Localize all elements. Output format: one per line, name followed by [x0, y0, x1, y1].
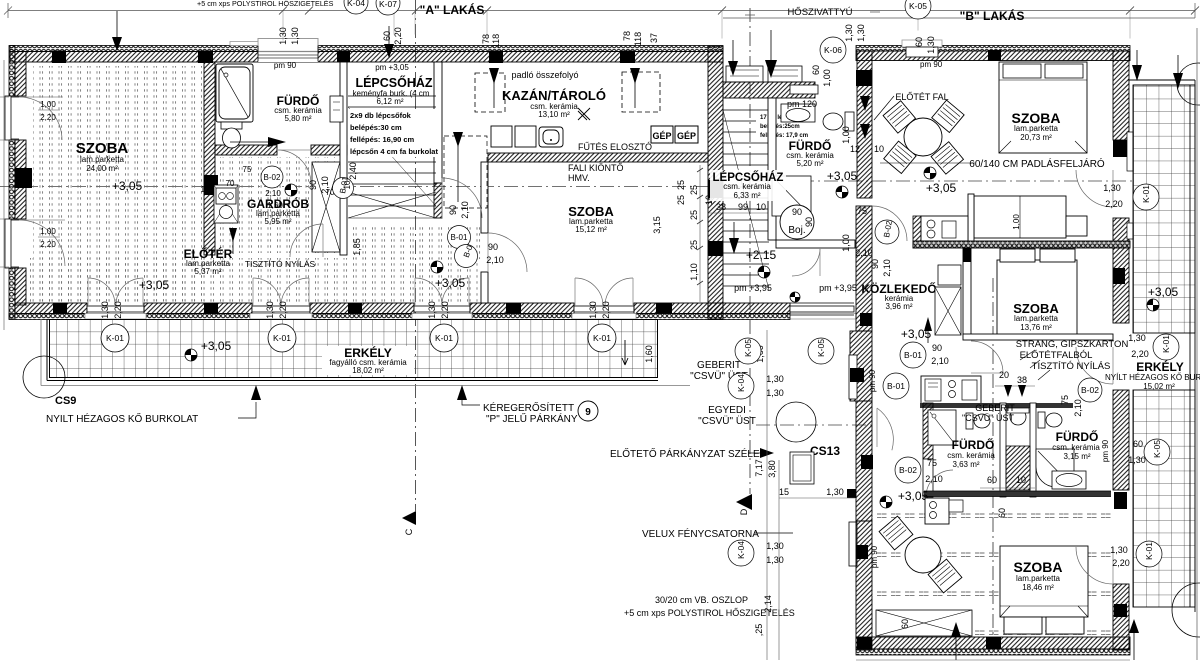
svg-text:24,00 m²: 24,00 m² [86, 164, 118, 173]
svg-text:3,80: 3,80 [767, 460, 777, 478]
svg-text:ELŐTETŐ PÁRKÁNYZAT SZÉLE: ELŐTETŐ PÁRKÁNYZAT SZÉLE [610, 446, 760, 460]
svg-text:lépcsőn 4 cm fa burkolat: lépcsőn 4 cm fa burkolat [350, 147, 438, 156]
bottom window 3 [414, 306, 470, 312]
svg-text:FÜRDŐ: FÜRDŐ [1056, 429, 1099, 444]
svg-text:2,20: 2,20 [278, 301, 288, 319]
svg-text:FÜRDŐ: FÜRDŐ [952, 437, 995, 452]
arrow in closet2 [630, 68, 640, 84]
svg-text:25: 25 [689, 240, 699, 250]
half disc marker middle [836, 186, 848, 198]
svg-text:K-07: K-07 [379, 0, 397, 9]
piers B left wall [856, 70, 872, 86]
svg-text:K-01: K-01 [106, 333, 124, 343]
door labels B-01 pair szoba15 [448, 226, 471, 249]
parquet floor gardrob [219, 157, 335, 253]
svg-text:lam.parketta: lam.parketta [1014, 314, 1059, 323]
top dim line [8, 10, 1195, 12]
section line D vertical [749, 8, 751, 494]
wardrobe X szoba1846 [876, 610, 972, 636]
K-05 circle right [1144, 439, 1170, 465]
svg-text:pm 90: pm 90 [868, 369, 877, 392]
down arrow balcony [622, 340, 628, 365]
floor drain symbol [578, 108, 590, 120]
svg-text:lam.parketta: lam.parketta [80, 155, 125, 164]
svg-text:pm +3,95: pm +3,95 [819, 283, 857, 293]
K-06 circle [820, 37, 846, 63]
svg-text:,25: ,25 [754, 624, 764, 637]
svg-text:2,10: 2,10 [925, 474, 943, 484]
svg-text:K-04: K-04 [347, 0, 365, 8]
svg-text:B-02: B-02 [264, 173, 281, 182]
column bottom wall 2 [506, 303, 521, 314]
middle top wall [723, 82, 815, 98]
svg-text:VELUX FÉNYCSATORNA: VELUX FÉNYCSATORNA [642, 527, 759, 540]
svg-text:75: 75 [243, 165, 252, 174]
door kozlekedo-szoba1376 [971, 341, 1003, 373]
svg-text:HMV.: HMV. [568, 173, 590, 183]
svg-text:D: D [739, 508, 749, 515]
svg-text:+3,05: +3,05 [926, 181, 957, 195]
svg-text:csm. kerámia: csm. kerámia [1052, 443, 1100, 452]
GEP box 1 [651, 126, 673, 143]
wall between szoba2073 and szoba1376 [913, 241, 1130, 248]
svg-text:25: 25 [676, 180, 686, 190]
furdo 363 shower [928, 410, 956, 445]
svg-text:7,17: 7,17 [754, 459, 764, 477]
svg-text:60: 60 [997, 508, 1007, 518]
svg-text:10: 10 [201, 185, 210, 194]
svg-text:pm 90: pm 90 [870, 545, 879, 568]
furdo 363 walls [923, 403, 933, 459]
wall furdo bottom [215, 145, 277, 155]
middle bottom window [790, 306, 854, 312]
bottom wall chunk 2 [144, 303, 252, 314]
svg-text:csm. kerámia: csm. kerámia [947, 451, 995, 460]
svg-text:TISZTÍTÓ NYÍLÁS: TISZTÍTÓ NYÍLÁS [245, 259, 316, 269]
dashed zone kazan lower left [444, 136, 487, 208]
svg-text:60: 60 [382, 31, 392, 41]
A left wall piece 2 [9, 140, 15, 219]
section C arrow [402, 511, 416, 525]
K-01 circle right 1 [1133, 184, 1159, 210]
svg-text:1,10: 1,10 [689, 263, 699, 281]
kazan dashed closet 1 [475, 72, 660, 112]
door furdo A [277, 150, 311, 184]
half disc marker kozleledo [790, 292, 800, 302]
svg-text:2,20: 2,20 [40, 113, 56, 122]
svg-text:2,20: 2,20 [440, 301, 450, 319]
svg-text:3,15: 3,15 [652, 216, 662, 234]
door label B-01 eloter [333, 178, 354, 199]
closet X kozlekedo [935, 287, 961, 335]
door labels B-02 [261, 166, 283, 188]
B right wall window sills [1127, 132, 1133, 171]
svg-text:EGYEDI: EGYEDI [708, 405, 746, 416]
arrow P parkany [457, 385, 467, 400]
svg-text:1,30: 1,30 [100, 301, 110, 319]
svg-text:5,80 m²: 5,80 m² [284, 114, 311, 123]
svg-text:78: 78 [622, 31, 632, 41]
svg-text:60: 60 [811, 65, 821, 75]
K-07 circle top cut [376, 0, 400, 15]
svg-text:5,37 m²: 5,37 m² [194, 267, 221, 276]
svg-text:GÉP: GÉP [652, 131, 671, 141]
svg-text:fellépés: 16,90 cm: fellépés: 16,90 cm [350, 135, 415, 144]
terrace grid lower [1133, 390, 1195, 607]
svg-text:2x9 db lépcsőfok: 2x9 db lépcsőfok [350, 111, 412, 120]
svg-text:2,10: 2,10 [1073, 399, 1083, 417]
svg-text:belépés:25cm: belépés:25cm [760, 124, 800, 130]
K-05 circles below A [735, 338, 761, 364]
svg-text:1,00: 1,00 [40, 227, 56, 236]
svg-text:1,30: 1,30 [826, 487, 844, 497]
stairs text underlay [348, 109, 436, 157]
K-01 circle right 3 [1136, 541, 1162, 567]
arrow down middle kazan [729, 238, 739, 254]
B top wall brick [856, 51, 1130, 61]
column top wall 2 [198, 51, 213, 64]
svg-text:K-04: K-04 [736, 541, 746, 559]
svg-text:1,30: 1,30 [588, 301, 598, 319]
balcony slab grid [50, 320, 658, 378]
svg-text:90: 90 [792, 207, 802, 217]
window top wall (pm+3,05) [258, 46, 318, 63]
column bottom wall 1 [204, 303, 218, 314]
arrow gardrob [229, 228, 237, 242]
bojler [780, 205, 814, 239]
A left wall window 2 [5, 219, 11, 268]
svg-text:10: 10 [343, 180, 352, 189]
gardrob washer dryer [214, 185, 238, 223]
svg-text:15: 15 [779, 487, 789, 497]
right edge dim line [1196, 28, 1198, 660]
arrow bottom right [1129, 619, 1139, 633]
svg-text:pm +3,95: pm +3,95 [734, 283, 772, 293]
A left wall piece 1 [9, 46, 15, 97]
furdo 315 sink bottom [1052, 471, 1086, 489]
kitchen B upper [921, 216, 968, 241]
svg-text:K-05: K-05 [816, 339, 826, 357]
section D arrow [736, 494, 752, 510]
svg-text:25: 25 [676, 195, 686, 205]
svg-text:15,02 m²: 15,02 m² [1143, 382, 1175, 391]
svg-text:padló összefolyó: padló összefolyó [511, 70, 578, 80]
column B top [988, 50, 1001, 61]
svg-text:"B" LAKÁS: "B" LAKÁS [960, 8, 1025, 23]
svg-text:CS13: CS13 [810, 444, 840, 458]
svg-text:belépés:30 cm: belépés:30 cm [350, 123, 402, 132]
svg-text:10: 10 [756, 202, 766, 212]
svg-text:2,10: 2,10 [460, 201, 470, 219]
svg-text:NYÍLT HÉZAGOS KŐ BUR: NYÍLT HÉZAGOS KŐ BUR [1105, 373, 1200, 382]
svg-text:ELŐTÉTFALBÓL: ELŐTÉTFALBÓL [1020, 350, 1093, 361]
svg-text:1,85: 1,85 [352, 238, 362, 256]
rotated dims top [278, 27, 936, 252]
axis line horizontal B mid [756, 424, 872, 426]
shower furdo A [216, 64, 253, 122]
svg-text:+3,05: +3,05 [827, 169, 858, 183]
svg-text:"CSVÜ" ÜST: "CSVÜ" ÜST [962, 413, 1014, 423]
A left wall window 1 [5, 96, 11, 140]
door B right to terrace (upper) [1076, 170, 1113, 207]
svg-text:B-02: B-02 [1081, 385, 1099, 395]
svg-text:GÉP: GÉP [677, 131, 696, 141]
svg-text:99: 99 [738, 202, 748, 212]
svg-text:1,30: 1,30 [427, 301, 437, 319]
wall stairs right [434, 62, 442, 183]
terrace grid upper [1133, 85, 1195, 333]
svg-text:1,30: 1,30 [766, 388, 784, 398]
svg-text:STRANG, GIPSZKARTON: STRANG, GIPSZKARTON [1016, 339, 1129, 350]
svg-text:2,20: 2,20 [1112, 558, 1130, 568]
door furdo1 arc [926, 470, 953, 497]
svg-text:csm. kerámia: csm. kerámia [723, 182, 771, 191]
svg-text:lam.parketta: lam.parketta [1014, 124, 1059, 133]
door arc window1 [19, 97, 62, 140]
stairs B treads [723, 110, 769, 290]
svg-text:5,95 m²: 5,95 m² [264, 217, 291, 226]
svg-text:+3,05: +3,05 [139, 278, 170, 292]
svg-text:60/140 CM PADLÁSFELJÁRÓ: 60/140 CM PADLÁSFELJÁRÓ [969, 157, 1105, 170]
A left wall piece 3 [9, 268, 15, 319]
parquet floor eloter [30, 258, 478, 302]
svg-text:HŐSZIVATTYÚ: HŐSZIVATTYÚ [787, 7, 852, 18]
K-05 circle top [905, 0, 931, 19]
furdo B fixtures: sink [781, 104, 815, 122]
middle left wall upper (shared edge) [708, 46, 723, 62]
svg-text:25: 25 [689, 210, 699, 220]
svg-text:90: 90 [870, 259, 880, 269]
door B-02 upper left [872, 206, 907, 241]
A top wall insulation [10, 46, 723, 52]
svg-text:2,40: 2,40 [348, 162, 358, 180]
svg-text:1,30: 1,30 [766, 374, 784, 384]
svg-text:2,10: 2,10 [486, 255, 504, 265]
svg-text:C: C [404, 528, 414, 535]
svg-text:2,10: 2,10 [882, 259, 892, 277]
svg-text:75: 75 [1060, 395, 1070, 405]
svg-text:18,46 m²: 18,46 m² [1022, 583, 1054, 592]
corner circle bottom right [1172, 583, 1200, 637]
svg-text:TISZTÍTÓ NYÍLÁS: TISZTÍTÓ NYÍLÁS [1032, 361, 1111, 372]
bed szoba1846 [1000, 546, 1088, 634]
svg-text:+2,15: +2,15 [746, 248, 777, 262]
wall furdoB left [768, 98, 776, 240]
svg-text:9: 9 [585, 407, 591, 418]
svg-text:6,12 m²: 6,12 m² [376, 97, 403, 106]
svg-text:B-01: B-01 [451, 233, 468, 242]
svg-text:13,10 m²: 13,10 m² [538, 110, 570, 119]
thin wall kitchen [968, 194, 974, 247]
svg-text:10: 10 [1016, 475, 1026, 485]
svg-text:GEBERIT: GEBERIT [697, 360, 741, 371]
svg-text:+3,05: +3,05 [1148, 285, 1179, 299]
svg-text:1,00: 1,00 [40, 100, 56, 109]
circle 9 [578, 401, 598, 421]
svg-text:2,10: 2,10 [320, 176, 330, 194]
svg-text:1,30: 1,30 [1128, 455, 1146, 465]
bottom window 4 [574, 306, 634, 312]
CS13 circle [776, 402, 816, 442]
svg-text:90: 90 [448, 205, 458, 215]
bottom wall chunk 1 [15, 303, 87, 314]
svg-text:25: 25 [689, 185, 699, 195]
shaft walls [1000, 403, 1006, 497]
A top wall brick [10, 52, 723, 63]
svg-text:pm +3,05: pm +3,05 [375, 63, 409, 72]
column top wall 3 [489, 51, 503, 64]
single bed [974, 196, 1087, 238]
bottom wall chunk 5 [634, 303, 723, 314]
svg-text:B-01: B-01 [904, 350, 922, 360]
half disc marker szoba24 [285, 184, 297, 196]
wall szoba1376 bottom [963, 334, 1113, 340]
heat pump units outside [726, 66, 802, 82]
column bottom wall 3 [656, 303, 672, 314]
B bottom wall [856, 637, 1130, 649]
svg-text:+5 cm xps POLYSTIROL HŐSZIGETE: +5 cm xps POLYSTIROL HŐSZIGETELÉS [197, 0, 334, 8]
door K-01 szoba1846 [1076, 547, 1113, 584]
pier left wall [15, 168, 32, 188]
svg-text:37: 37 [649, 33, 659, 43]
half disc B [924, 167, 936, 179]
middle bottom wall [708, 303, 790, 314]
section line through B kitchen [992, 278, 994, 640]
door eloter-stairs arc [290, 224, 323, 257]
svg-text:"A" LAKÁS: "A" LAKÁS [420, 2, 485, 17]
B left wall [857, 51, 872, 198]
wall kazan bottom [488, 153, 708, 162]
furdo 315 shower [1036, 449, 1074, 487]
svg-text:3,15 m²: 3,15 m² [1063, 452, 1090, 461]
svg-text:60: 60 [987, 475, 997, 485]
svg-text:FALI KIÖNTŐ: FALI KIÖNTŐ [568, 163, 624, 173]
svg-text:+3,05: +3,05 [201, 339, 232, 353]
toilet furdo A [221, 122, 242, 148]
corner circle top right [1177, 63, 1200, 105]
svg-text:1,30: 1,30 [856, 24, 866, 42]
svg-text:118: 118 [491, 34, 501, 48]
stairs A treads [348, 96, 436, 218]
svg-text:1,30: 1,30 [1110, 545, 1128, 555]
balcony K-01 circles [101, 324, 616, 352]
K-04 circle top cut [344, 0, 368, 14]
stair B text underlay [756, 112, 808, 140]
svg-text:"CSVÜ" ÜST: "CSVÜ" ÜST [698, 415, 756, 427]
door eloter-stairs [442, 178, 482, 218]
door szoba15 [488, 233, 527, 272]
B szoba2073 double bed [999, 62, 1087, 153]
arrows down into shaft [1004, 385, 1012, 397]
svg-text:+3,05: +3,05 [435, 276, 466, 290]
wall kozlekedo/szoba1376 vertical [963, 248, 971, 335]
svg-text:K-05: K-05 [909, 1, 927, 11]
svg-text:K-06: K-06 [824, 45, 842, 55]
B top wall insulation [856, 46, 1130, 52]
svg-text:NYILT HÉZAGOS KŐ BURKOLAT: NYILT HÉZAGOS KŐ BURKOLAT [46, 411, 198, 425]
svg-text:pm 120: pm 120 [787, 99, 817, 109]
parquet szoba 1846 [872, 498, 1113, 637]
leader nyilt hezagos [251, 385, 261, 400]
wall szoba24/furdo vertical [204, 62, 215, 255]
CS9 circle [23, 356, 65, 398]
B-01 circle kozlekedo [900, 342, 926, 368]
balcony outer thin line [41, 319, 690, 386]
svg-text:1,30: 1,30 [278, 27, 288, 45]
bottom wall chunk 3 [310, 303, 414, 314]
svg-text:K-01: K-01 [435, 333, 453, 343]
bath top wall dark band [920, 403, 1073, 408]
furdo 315 toilet [1038, 412, 1062, 428]
svg-text:118: 118 [633, 32, 643, 46]
svg-text:1,30: 1,30 [926, 36, 936, 54]
svg-text:2,10: 2,10 [265, 189, 281, 198]
svg-text:60: 60 [900, 619, 910, 629]
svg-text:K-01: K-01 [1141, 185, 1151, 203]
svg-text:1,30: 1,30 [766, 541, 784, 551]
arrow down top-left wall [112, 37, 122, 51]
arrow up kozlekedo [924, 317, 932, 331]
svg-text:1,30: 1,30 [1103, 183, 1121, 193]
arrows down to heat pumps [728, 61, 738, 76]
dim chain bottom middle [767, 330, 779, 660]
svg-text:10: 10 [874, 144, 884, 154]
svg-text:2,20: 2,20 [40, 240, 56, 249]
axis line horizontal B block [752, 180, 1133, 182]
svg-text:12: 12 [850, 144, 860, 154]
svg-text:2,20: 2,20 [393, 27, 403, 45]
svg-text:K-01: K-01 [1144, 542, 1154, 560]
half disc marker balcony [185, 349, 197, 361]
svg-text:2,14: 2,14 [763, 595, 773, 613]
B top wall window [902, 40, 942, 47]
svg-text:B-02: B-02 [899, 465, 917, 475]
svg-text:1,00: 1,00 [841, 126, 851, 144]
furdo B toilet [823, 112, 854, 131]
door furdo B [792, 248, 820, 276]
B right wall pieces [1113, 51, 1129, 140]
svg-text:K-05: K-05 [743, 339, 753, 357]
terrace arrows top [1132, 65, 1183, 89]
svg-text:30/20 cm VB. OSZLOP: 30/20 cm VB. OSZLOP [655, 595, 748, 605]
svg-text:2,20: 2,20 [113, 301, 123, 319]
A right wall (between A and middle) [708, 62, 723, 319]
svg-text:+3,05: +3,05 [112, 179, 143, 193]
svg-text:"P" JELŰ PÁRKÁNY: "P" JELŰ PÁRKÁNY [486, 411, 578, 425]
svg-text:1,30: 1,30 [766, 555, 784, 565]
svg-text:3,63 m²: 3,63 m² [952, 460, 979, 469]
svg-text:70: 70 [226, 179, 235, 188]
stairs A arrow (in kazan passage) [453, 132, 463, 147]
svg-text:K-01: K-01 [273, 333, 291, 343]
svg-text:3,96 m²: 3,96 m² [885, 302, 912, 311]
column top wall 1 [52, 51, 66, 64]
section line C vertical [415, 0, 417, 511]
svg-text:K-01: K-01 [593, 333, 611, 343]
svg-text:ERKÉLY: ERKÉLY [1136, 359, 1184, 374]
svg-text:5,20 m²: 5,20 m² [796, 159, 823, 168]
B-02 circle furdo2 [1078, 378, 1102, 402]
svg-text:1,00: 1,00 [822, 69, 832, 87]
svg-text:2,20: 2,20 [1131, 349, 1149, 359]
parquet floor szoba 24 [33, 66, 204, 301]
svg-text:K-04: K-04 [736, 374, 746, 392]
svg-text:60: 60 [1133, 439, 1143, 449]
svg-text:K-05: K-05 [1152, 440, 1162, 458]
B-02 circle furdo1 [895, 457, 921, 483]
kazan cabinets [491, 126, 563, 147]
balcony bottom double edge [47, 319, 658, 381]
